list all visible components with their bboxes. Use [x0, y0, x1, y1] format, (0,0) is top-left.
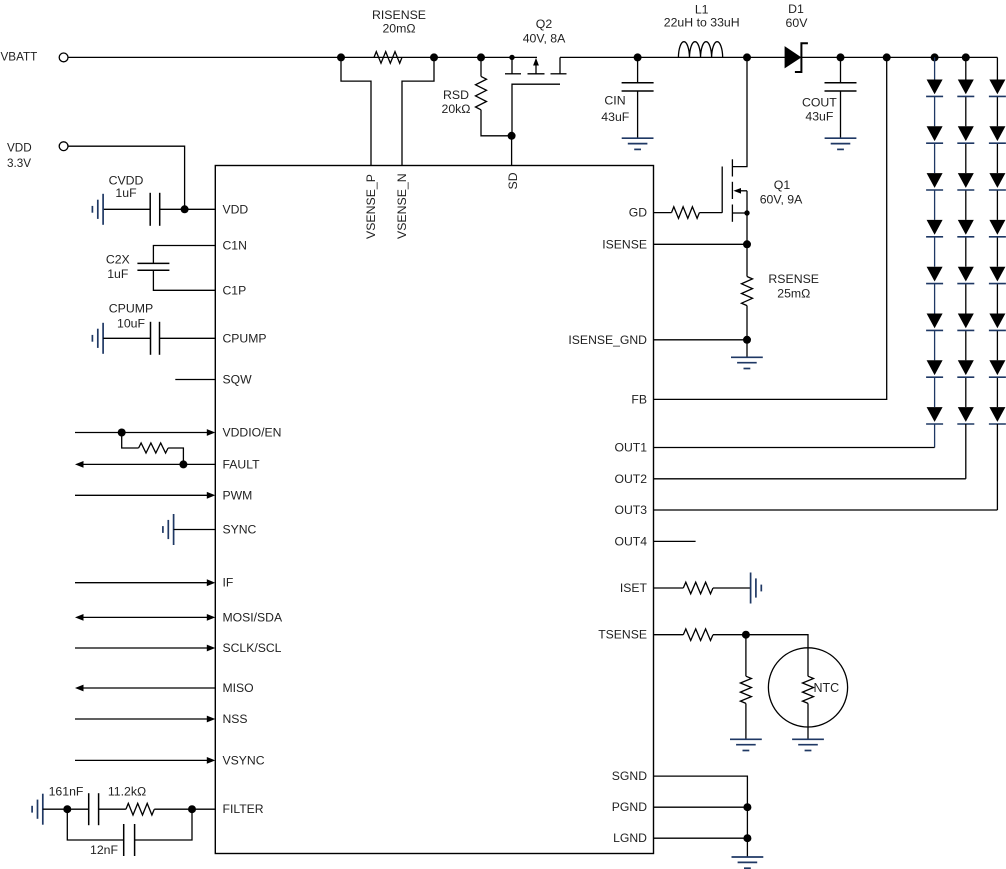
wire FILTER gnd to junction [43, 808, 89, 810]
svg-text:RSENSE: RSENSE [768, 272, 819, 286]
junction rail LED string 2 [962, 53, 970, 61]
LED D17 [927, 360, 943, 375]
arrow VDDIO/EN [207, 429, 216, 436]
ground LGND [732, 856, 764, 858]
wire LED string 1 to OUT1 [934, 424, 936, 448]
svg-text:Q1: Q1 [774, 178, 791, 192]
LED D23 [958, 173, 974, 188]
wire ISENSE to RSENSE [746, 244, 748, 276]
arrow FAULT [75, 461, 84, 468]
LED D25 [958, 267, 974, 282]
LED D13 [927, 173, 943, 188]
op-amp U1 IC body [215, 166, 653, 854]
svg-text:43uF: 43uF [601, 110, 630, 124]
LED D24 [958, 220, 974, 235]
wire LED string 1 verticals [934, 57, 936, 79]
svg-text:10uF: 10uF [117, 317, 146, 331]
wire VBATT rail left segment [68, 56, 537, 58]
wire VDD feed [68, 146, 185, 209]
inductor L1 [678, 42, 722, 58]
LED D35 [989, 267, 1005, 282]
svg-text:ISENSE: ISENSE [602, 237, 647, 251]
svg-text:ISET: ISET [620, 581, 648, 595]
svg-text:RISENSE: RISENSE [372, 8, 426, 22]
junction rail at Q1 drain [743, 53, 751, 61]
svg-text:60V, 9A: 60V, 9A [760, 193, 803, 207]
wire ISENSE_GND [654, 339, 748, 341]
wire SQW stub [175, 379, 215, 381]
wire ISENSE_GND to ground [746, 340, 748, 358]
LED D36 [989, 314, 1005, 329]
resistor R pullup FAULT [139, 443, 169, 453]
ground FILTER [42, 794, 44, 825]
wire NSS [75, 718, 207, 720]
svg-text:1uF: 1uF [115, 186, 137, 200]
LED D38 [989, 407, 1005, 422]
junction rail at FB [883, 53, 891, 61]
transistor Q2 channel bars [505, 73, 521, 75]
svg-text:43uF: 43uF [805, 109, 834, 123]
junction VDDIO/EN [118, 429, 126, 437]
wire resistor to FILTER pin [154, 808, 215, 810]
svg-text:FB: FB [631, 392, 647, 406]
svg-text:MOSI/SDA: MOSI/SDA [223, 610, 283, 624]
junction rail right of RISENSE [430, 53, 438, 61]
arrow SCLK/SCL [207, 645, 216, 652]
svg-text:Q2: Q2 [536, 17, 553, 31]
ground ISET [750, 573, 752, 604]
LED D31 [989, 80, 1005, 95]
transistor Q2 drain lead [559, 57, 561, 73]
transistor Q1 channel dashes [731, 159, 733, 176]
wire FAULT [83, 463, 215, 465]
svg-text:3.3V: 3.3V [7, 157, 31, 170]
resistor R thermistor divider [740, 676, 751, 703]
LED D28 [958, 407, 974, 422]
wire FB [654, 57, 887, 399]
arrow IF [207, 579, 216, 586]
wire resistor to FAULT [168, 448, 183, 464]
capacitor COUT [825, 82, 857, 84]
junction rail left of RISENSE [337, 53, 345, 61]
svg-text:60V: 60V [786, 16, 809, 30]
svg-text:VSYNC: VSYNC [223, 753, 265, 767]
svg-text:VSENSE_N: VSENSE_N [395, 173, 409, 239]
arrow PWM [207, 492, 216, 499]
svg-text:VBATT: VBATT [1, 50, 38, 63]
wire C1N [153, 246, 215, 264]
node VBATT terminal [59, 53, 68, 62]
transistor Q1 source lead [732, 212, 747, 214]
svg-text:PWM: PWM [223, 488, 253, 502]
junction FILTER left [63, 805, 71, 813]
wire VSENSE_N [402, 57, 434, 165]
svg-text:11.2kΩ: 11.2kΩ [108, 785, 146, 799]
junction ISENSE_GND [743, 336, 751, 344]
svg-text:PGND: PGND [612, 800, 647, 814]
wire TSENSE node to NTC [746, 635, 808, 677]
wire LED string 2 verticals [965, 57, 967, 79]
svg-text:VDDIO/EN: VDDIO/EN [223, 426, 282, 440]
ground CIN [622, 137, 654, 139]
junction FILTER right [188, 805, 196, 813]
wire OUT4 stub [654, 540, 696, 542]
capacitor C2X [137, 262, 169, 264]
ground CVDD [102, 194, 104, 225]
ground CPUMP [102, 323, 104, 354]
resistor RSENSE [742, 277, 753, 306]
svg-text:LGND: LGND [613, 831, 647, 845]
svg-text:NSS: NSS [223, 712, 248, 726]
junction rail at CIN [634, 53, 642, 61]
resistor NTC element [803, 676, 814, 703]
LED D16 [927, 314, 943, 329]
wire gate resistor to Q1 [699, 212, 722, 214]
wire PGND [654, 806, 748, 808]
svg-text:L1: L1 [695, 2, 709, 16]
svg-text:25mΩ: 25mΩ [777, 287, 810, 301]
wire RSD bottom to SD node [481, 110, 512, 136]
svg-text:40V, 8A: 40V, 8A [523, 31, 566, 45]
resistor R 11.2k [126, 803, 154, 815]
wire divider resistor to ground [745, 703, 747, 739]
ground SYNC [173, 514, 175, 545]
wire ISET resistor to ground [713, 587, 751, 589]
junction PGND [743, 803, 751, 811]
junction rail LED string 1 [931, 53, 939, 61]
svg-text:IF: IF [223, 576, 234, 590]
svg-text:VDD: VDD [223, 202, 249, 216]
wire VDDIO/EN [75, 432, 207, 434]
LED D15 [927, 267, 943, 282]
svg-text:22uH to 33uH: 22uH to 33uH [664, 16, 740, 30]
LED D14 [927, 220, 943, 235]
junction Q1 source [744, 210, 749, 215]
junction VDD node [181, 205, 189, 213]
wire 161nF to resistor [99, 808, 126, 810]
junction SD node [508, 132, 516, 140]
resistor RISENSE [374, 52, 402, 64]
wire CVDD to ground [103, 208, 150, 210]
ground COUT [825, 137, 857, 139]
LED D26 [958, 314, 974, 329]
wire Q1 source to ISENSE [746, 213, 748, 244]
svg-text:MISO: MISO [223, 681, 254, 695]
svg-text:SQW: SQW [223, 373, 253, 387]
svg-text:CPUMP: CPUMP [223, 331, 267, 345]
svg-text:OUT2: OUT2 [614, 472, 647, 486]
wire LED string 3 verticals [996, 57, 998, 79]
svg-text:1uF: 1uF [107, 267, 129, 281]
wire COUT bottom [840, 91, 842, 138]
svg-text:VDD: VDD [7, 141, 32, 154]
svg-text:GD: GD [629, 206, 647, 220]
wire SCLK/SCL [75, 647, 207, 649]
wire C1P [153, 270, 215, 290]
wire CIN bottom [637, 91, 639, 138]
junction TSENSE node [742, 631, 750, 639]
resistor R gate [672, 207, 700, 219]
wire GD [654, 212, 672, 214]
svg-text:SD: SD [506, 172, 520, 189]
wire CIN top [637, 57, 639, 82]
junction rail at COUT [837, 53, 845, 61]
diode D1 schottky cathode [795, 43, 808, 72]
wire MISO [83, 687, 215, 689]
svg-text:COUT: COUT [802, 96, 837, 110]
wire SGND [654, 776, 748, 807]
wire TSENSE [654, 634, 684, 636]
ground NTC [792, 738, 824, 740]
capacitor C 12nF [123, 824, 125, 856]
LED D18 [927, 407, 943, 422]
wire CPUMP pin [160, 337, 216, 339]
svg-text:OUT3: OUT3 [614, 503, 647, 517]
wire ISET [654, 587, 684, 589]
svg-text:RSD: RSD [443, 88, 469, 102]
resistor R ISET [683, 582, 713, 594]
wire LGND to ground [746, 838, 748, 857]
transistor Q1 gate bar [721, 167, 723, 213]
wire 12nF branch left [67, 809, 123, 840]
svg-text:20mΩ: 20mΩ [382, 21, 415, 35]
LED D34 [989, 220, 1005, 235]
wire SYNC [174, 529, 216, 531]
svg-text:12nF: 12nF [90, 843, 119, 857]
wire NTC to ground [807, 703, 809, 739]
wire IF [75, 582, 207, 584]
arrow NSS [207, 716, 216, 723]
wire MOSI/SDA [83, 616, 207, 618]
svg-text:FILTER: FILTER [223, 802, 264, 816]
svg-text:CPUMP: CPUMP [109, 302, 153, 316]
svg-text:OUT4: OUT4 [614, 534, 647, 548]
LED D32 [989, 126, 1005, 141]
LED D27 [958, 360, 974, 375]
svg-text:161nF: 161nF [49, 785, 84, 799]
thermistor NTC circle [768, 648, 847, 727]
LED D22 [958, 126, 974, 141]
wire VBATT rail right segment [560, 56, 997, 58]
wire ISENSE [654, 243, 748, 245]
svg-text:NTC: NTC [814, 681, 840, 695]
junction ISENSE [743, 240, 751, 248]
transistor Q1 body arrow [740, 190, 747, 192]
wire LED string 3 to OUT3 [996, 424, 998, 510]
wire VDDIO to resistor [122, 433, 139, 449]
transistor Q2 source lead [511, 57, 513, 73]
wire PWM [75, 494, 207, 496]
junction Q2 source on rail [509, 55, 514, 60]
transistor Q1 drain lead [732, 57, 747, 166]
arrow VSYNC [207, 757, 216, 764]
wire TSENSE node down [745, 635, 747, 677]
wire CPUMP left [103, 337, 150, 339]
svg-text:C2X: C2X [106, 253, 130, 267]
svg-text:D1: D1 [788, 2, 804, 16]
svg-text:ISENSE_GND: ISENSE_GND [568, 333, 647, 347]
LED D11 [927, 80, 943, 95]
LED D37 [989, 360, 1005, 375]
capacitor C 161nF [88, 793, 90, 825]
capacitor CPUMP [150, 322, 152, 355]
svg-text:VSENSE_P: VSENSE_P [364, 174, 378, 239]
wire RSD top [480, 57, 482, 76]
wire SD to pin [511, 136, 513, 166]
svg-text:TSENSE: TSENSE [598, 628, 647, 642]
svg-text:C1P: C1P [223, 283, 247, 297]
svg-text:OUT1: OUT1 [614, 441, 647, 455]
wire VSENSE_P [341, 57, 371, 165]
wire LGND [654, 837, 748, 839]
wire VDD pin [160, 208, 216, 210]
svg-text:CIN: CIN [604, 94, 625, 108]
node VDD terminal [59, 142, 68, 151]
arrow MOSI/SDA left [75, 614, 84, 621]
svg-text:SCLK/SCL: SCLK/SCL [223, 641, 282, 655]
wire 12nF branch right [135, 809, 192, 840]
wire LED string 2 to OUT2 [965, 424, 967, 479]
resistor R TSENSE [683, 629, 713, 641]
wire COUT top [840, 57, 842, 82]
wire PGND to LGND [746, 807, 748, 838]
svg-text:SYNC: SYNC [223, 523, 257, 537]
wire VSYNC [75, 759, 207, 761]
junction FAULT [179, 460, 187, 468]
wire TSENSE resistor to node [713, 634, 746, 636]
svg-text:20kΩ: 20kΩ [441, 102, 470, 116]
transistor Q2 body arrow [535, 65, 537, 74]
capacitor CVDD [149, 193, 151, 226]
junction rail at RSD [477, 53, 485, 61]
ground divider [730, 738, 762, 740]
transistor Q2 gate [512, 84, 560, 136]
LED D33 [989, 173, 1005, 188]
diode D1 anode triangle [785, 46, 802, 68]
LED D12 [927, 126, 943, 141]
arrow MOSI/SDA right [207, 614, 216, 621]
svg-text:FAULT: FAULT [223, 457, 261, 471]
svg-text:SGND: SGND [612, 769, 647, 783]
LED D21 [958, 80, 974, 95]
wire RSENSE to ISENSE_GND [746, 306, 748, 340]
svg-text:C1N: C1N [223, 239, 247, 253]
capacitor CIN [622, 82, 654, 84]
ground ISENSE_GND [731, 356, 763, 358]
resistor RSD [476, 76, 487, 109]
arrow MISO [75, 685, 84, 692]
junction LGND [743, 834, 751, 842]
